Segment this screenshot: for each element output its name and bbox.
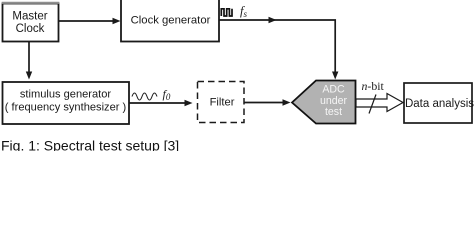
box stimulus generator <box>3 82 130 124</box>
svg-text:Master: Master <box>12 11 47 23</box>
wire Filter to ADC <box>244 99 291 105</box>
wire stimulus generator to Filter <box>129 100 193 106</box>
wire Master Clock to Clock generator <box>59 18 121 24</box>
svg-text:fs: fs <box>240 4 247 19</box>
svg-text:under: under <box>320 95 348 107</box>
wire Clock generator to ADC (right then down) <box>219 17 338 80</box>
label clock waveform glyph <box>221 9 232 16</box>
svg-text:Clock: Clock <box>16 23 45 35</box>
label sine wave <box>132 93 157 100</box>
svg-text:test: test <box>325 106 342 118</box>
ADC under test pentagon <box>292 81 356 124</box>
svg-text:( frequency synthesizer ): ( frequency synthesizer ) <box>5 102 126 114</box>
wire Master Clock down to stimulus generator <box>26 42 32 80</box>
svg-text:Fig. 1: Spectral test setup [3: Fig. 1: Spectral test setup [3] <box>1 138 179 152</box>
svg-text:n-bit: n-bit <box>362 79 385 93</box>
bus arrow ADC to Data analysis (hollow) <box>356 94 403 112</box>
box Clock generator <box>121 0 219 42</box>
bus width slash <box>369 95 376 114</box>
svg-text:Clock generator: Clock generator <box>131 15 211 27</box>
box Data analysis <box>404 83 474 123</box>
box Master Clock <box>2 3 60 42</box>
svg-text:ADC: ADC <box>322 84 345 96</box>
svg-text:stimulus generator: stimulus generator <box>20 89 112 101</box>
svg-text:Filter: Filter <box>210 97 235 109</box>
box Filter (dashed) <box>198 82 245 123</box>
svg-text:Data analysis: Data analysis <box>405 98 474 110</box>
svg-text:f0: f0 <box>163 87 171 102</box>
